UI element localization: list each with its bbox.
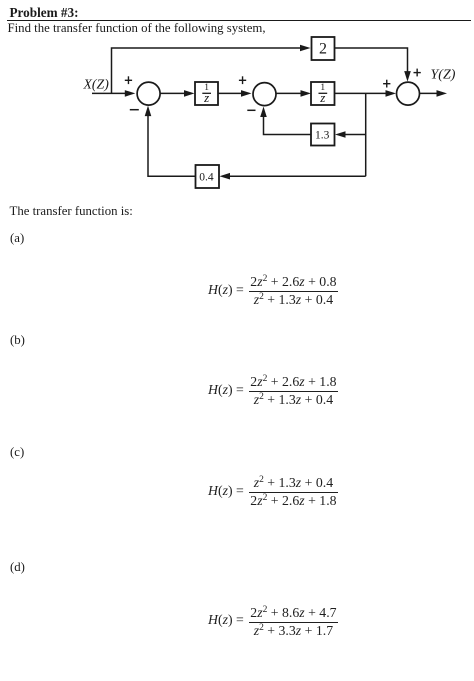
- wire: bottom feedback left to gain block 0.4: [229, 175, 366, 177]
- delay block D1 (1/z): [195, 82, 218, 105]
- svg-text:1.3: 1.3: [315, 129, 330, 141]
- subtitle line: [8, 21, 266, 36]
- arrowhead into S2 bottom: [260, 107, 267, 118]
- output arrowhead: [437, 90, 448, 97]
- equation (a): [208, 274, 338, 308]
- plus sign at S1 left input: [125, 76, 132, 84]
- wire: S3 to output Y(Z): [420, 92, 438, 94]
- wire: gain 2 output right and down to summer S3 top: [335, 48, 408, 73]
- arrowhead into D2: [301, 90, 312, 97]
- arrowhead into S3 top: [404, 71, 411, 82]
- svg-text:0.4: 0.4: [199, 172, 214, 184]
- wire: gain 1.3 output left and up to summer S2 bottom: [264, 116, 312, 135]
- equation (b): [208, 374, 338, 408]
- svg-text:X(Z): X(Z): [83, 77, 110, 93]
- horizontal rule under title: [7, 20, 471, 21]
- text: The transfer function is:: [10, 204, 133, 219]
- equation (c): [208, 475, 338, 509]
- plus sign at S3 left input: [383, 80, 390, 88]
- arrowhead into gain 0.4: [220, 173, 231, 180]
- gain block G3 (value 1.3): [311, 124, 335, 146]
- svg-text:z: z: [203, 90, 209, 105]
- arrowhead into D1: [184, 90, 195, 97]
- arrowhead into gain 1.3: [335, 131, 346, 138]
- wire: feedback branch down from node between D2 and S3: [365, 93, 367, 176]
- arrowhead into summer S1: [125, 90, 136, 97]
- equation (d): [208, 605, 338, 639]
- arrowhead into gain block 2: [300, 45, 311, 52]
- option (a): [10, 231, 24, 246]
- svg-text:2: 2: [319, 41, 327, 58]
- option (b): [10, 333, 25, 348]
- summer S2: [253, 83, 276, 106]
- svg-text:Y(Z): Y(Z): [431, 68, 456, 83]
- wire: tap left to gain block 1.3: [344, 134, 366, 136]
- wire: D1 to summer S2: [219, 92, 243, 94]
- option (c): [10, 445, 24, 460]
- arrowhead into S1 bottom: [145, 106, 152, 117]
- arrowhead into S2: [241, 90, 252, 97]
- wire: branch from input up and right to gain block 2: [112, 48, 302, 93]
- option (d): [10, 560, 25, 575]
- arrowhead into S3 left: [386, 90, 397, 97]
- delay block D2 (1/z): [311, 82, 335, 105]
- wire: S2 to delay block D2: [276, 92, 302, 94]
- block diagram: [0, 0, 474, 210]
- title: Problem #3:: [10, 5, 79, 21]
- minus sign at S2 bottom input: [247, 109, 255, 111]
- svg-text:z: z: [319, 90, 325, 105]
- minus sign at S1 bottom input: [130, 109, 139, 111]
- wire: input X(Z) to summer S1: [92, 92, 126, 94]
- wire: S1 to delay block D1: [160, 92, 185, 94]
- plus sign at S2 left input: [239, 76, 246, 84]
- wire: gain 0.4 output left and up to summer S1 bottom: [148, 116, 196, 177]
- summer S1: [137, 82, 160, 105]
- wire: D2 to summer S3 (with branch node): [335, 92, 387, 94]
- plus sign at S3 top input: [414, 69, 421, 77]
- summer S3: [397, 82, 420, 105]
- gain block G4 (value 0.4): [196, 165, 220, 188]
- gain block G2 (value 2): [312, 37, 335, 60]
